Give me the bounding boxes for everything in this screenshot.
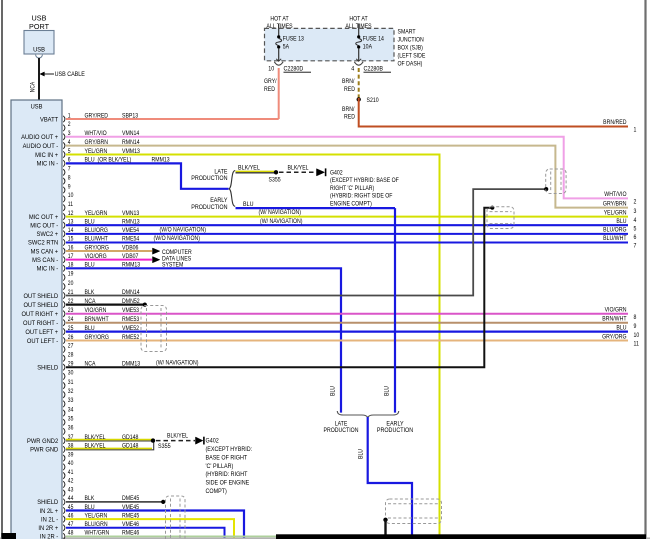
- svg-text:BLK: BLK: [85, 289, 95, 296]
- right window border: [644, 0, 646, 539]
- pin 32: [63, 392, 65, 398]
- wire BLU from brace down to bottom connector: [368, 417, 412, 537]
- svg-text:OUT SHIELD: OUT SHIELD: [24, 302, 59, 309]
- svg-text:WHT/VIO: WHT/VIO: [85, 131, 108, 138]
- junction dot pin 44 shield: [161, 500, 165, 504]
- svg-text:3: 3: [634, 208, 638, 215]
- wire pin 38 BLK/YEL GD148 joins S355: [66, 441, 154, 450]
- wire GRY/RED from fuse 13: [278, 68, 280, 119]
- svg-text:OUT RIGHT +: OUT RIGHT +: [22, 311, 59, 318]
- shield stub wire to module below: [384, 520, 386, 536]
- USB port connector notch: [36, 55, 43, 58]
- svg-text:34: 34: [68, 407, 74, 414]
- svg-text:BASE OF RIGHT: BASE OF RIGHT: [206, 455, 248, 462]
- svg-text:GRY/BRN: GRY/BRN: [85, 140, 109, 147]
- svg-text:RED: RED: [264, 86, 275, 93]
- svg-text:BLU/WHT: BLU/WHT: [85, 236, 109, 243]
- svg-text:S355: S355: [158, 444, 171, 451]
- svg-text:BLU: BLU: [85, 504, 95, 511]
- pin 46: [63, 516, 65, 523]
- pin 6: [63, 160, 65, 166]
- label USB CABLE with arrow: [40, 72, 44, 76]
- svg-text:RMM13: RMM13: [152, 157, 171, 164]
- pin 8: [63, 178, 65, 184]
- wire pin 6 BLU (OR BLK/YEL) RMM13 to brace: [66, 163, 229, 188]
- svg-text:VIO/GRN: VIO/GRN: [85, 308, 107, 315]
- pin 43: [63, 490, 65, 496]
- left window border: [1, 0, 3, 539]
- svg-text:33: 33: [68, 398, 74, 405]
- svg-text:PRODUCTION: PRODUCTION: [324, 427, 359, 434]
- svg-text:9: 9: [634, 323, 637, 330]
- svg-text:BLU: BLU: [616, 325, 626, 332]
- svg-text:OUT SHIELD: OUT SHIELD: [24, 293, 59, 300]
- brace late/early production: [229, 171, 236, 207]
- svg-text:GD148: GD148: [122, 443, 139, 450]
- pin 13: [63, 222, 65, 228]
- svg-text:BLU: BLU: [243, 202, 253, 209]
- svg-text:VME52: VME52: [122, 325, 139, 332]
- pin 47: [63, 525, 65, 531]
- wire pin 17 VIO/ORG VDB07 to computer data lines: [66, 259, 152, 261]
- pin 15: [63, 239, 65, 245]
- svg-text:S210: S210: [367, 98, 380, 105]
- svg-text:PRODUCTION: PRODUCTION: [191, 204, 227, 211]
- wire pin 44 BLK DME45 shield: [66, 501, 163, 503]
- svg-text:2: 2: [68, 122, 71, 129]
- svg-text:MIC IN -: MIC IN -: [37, 160, 59, 167]
- wire pin 18 BLU RMM13 down to brace: [66, 268, 341, 412]
- svg-text:OUT RIGHT -: OUT RIGHT -: [23, 320, 58, 327]
- svg-text:30: 30: [68, 370, 74, 377]
- connector C2280B pin 4: [356, 59, 361, 61]
- svg-text:43: 43: [68, 487, 74, 494]
- pin 37: [63, 437, 65, 443]
- fuse F13 5A: [278, 24, 280, 37]
- svg-text:7: 7: [634, 243, 637, 250]
- svg-text:10: 10: [634, 332, 640, 339]
- pin 30: [63, 373, 65, 379]
- svg-text:FUSE 13: FUSE 13: [283, 36, 305, 43]
- wire pin 15 BLU/WHT RME54 to edge wire 7: [66, 241, 628, 243]
- svg-text:GRY/ORG: GRY/ORG: [85, 245, 110, 252]
- svg-text:4: 4: [634, 217, 638, 224]
- module USB box: [11, 100, 62, 539]
- inline connector over pins 45-48: [166, 496, 186, 539]
- svg-text:VIO/ORG: VIO/ORG: [85, 254, 108, 261]
- svg-text:RIGHT 'C' PILLAR): RIGHT 'C' PILLAR): [330, 185, 374, 192]
- svg-text:G402: G402: [330, 170, 343, 177]
- junction dot at connector, pin 21 shield: [544, 187, 548, 191]
- inline connector bottom right: [386, 499, 442, 524]
- pin 24: [63, 320, 65, 326]
- wire BLK/YEL dashed to G402 lower: [156, 440, 195, 442]
- svg-text:FUSE 14: FUSE 14: [363, 36, 385, 43]
- svg-text:9: 9: [68, 184, 71, 191]
- splice S355 lower: [151, 438, 155, 442]
- svg-text:(W/ NAVIGATION): (W/ NAVIGATION): [260, 218, 303, 225]
- svg-text:BLK/YEL: BLK/YEL: [167, 433, 189, 440]
- svg-text:32: 32: [68, 389, 74, 396]
- pin 5: [63, 151, 65, 157]
- pin 41: [63, 472, 65, 478]
- svg-text:GRY/RED: GRY/RED: [85, 113, 109, 120]
- svg-text:SWC2 +: SWC2 +: [36, 231, 58, 238]
- bottom module box edge clipped: [276, 534, 646, 539]
- svg-text:20: 20: [68, 280, 74, 287]
- pin 7: [63, 169, 65, 175]
- svg-text:OUT LEFT -: OUT LEFT -: [27, 337, 58, 344]
- pin 3: [63, 134, 65, 140]
- svg-text:MIC OUT -: MIC OUT -: [30, 222, 58, 229]
- svg-text:GRY/ORG: GRY/ORG: [85, 334, 110, 341]
- svg-text:VME45: VME45: [122, 504, 140, 511]
- svg-text:NCA: NCA: [85, 361, 96, 368]
- wire pin 12 YEL/GRN VMN13 to edge wire 4: [66, 216, 628, 218]
- svg-text:MIC OUT +: MIC OUT +: [29, 214, 59, 221]
- svg-text:10: 10: [268, 66, 275, 73]
- bottom-left corner block: [2, 533, 17, 539]
- svg-text:RME54: RME54: [122, 236, 140, 243]
- svg-text:RME45: RME45: [122, 513, 140, 520]
- pin 35: [63, 419, 65, 425]
- svg-text:USB: USB: [33, 46, 45, 54]
- svg-text:IN 2L +: IN 2L +: [40, 508, 59, 515]
- svg-text:36: 36: [68, 425, 74, 432]
- svg-text:RED: RED: [344, 86, 355, 93]
- svg-text:VIO/GRN: VIO/GRN: [605, 307, 627, 314]
- svg-text:GRY/ORG: GRY/ORG: [602, 334, 627, 341]
- svg-text:USB CABLE: USB CABLE: [55, 72, 85, 79]
- pin 1: [63, 116, 65, 122]
- svg-text:EARLY: EARLY: [210, 198, 227, 205]
- wire USB cable NCA: [38, 58, 40, 100]
- svg-text:27: 27: [68, 343, 74, 350]
- ground G402 arrow lower: [196, 437, 203, 444]
- wire pin 47 BLU/GRN VME46 down: [66, 528, 225, 538]
- svg-text:MS CAN -: MS CAN -: [32, 257, 58, 264]
- svg-text:VMM13: VMM13: [122, 148, 141, 155]
- pin 11: [63, 205, 65, 211]
- wire pin 16 GRY/ORG VDB06 to computer data lines: [66, 250, 152, 252]
- svg-text:OF DASH): OF DASH): [398, 61, 423, 68]
- svg-text:VDB07: VDB07: [122, 254, 138, 261]
- svg-text:BLU: BLU: [85, 219, 95, 226]
- svg-text:SBP13: SBP13: [122, 113, 139, 120]
- svg-text:10A: 10A: [363, 44, 372, 51]
- wire pin 48 WHT/GRN RME46: [66, 535, 277, 537]
- svg-text:BLU/ORG: BLU/ORG: [85, 228, 109, 235]
- wire BLU early production branch: [236, 207, 396, 209]
- pin 40: [63, 464, 65, 470]
- svg-text:S355: S355: [269, 177, 282, 184]
- inline connector over pins 23-26: [141, 306, 167, 352]
- svg-text:DMM13: DMM13: [122, 361, 141, 368]
- svg-text:RMN14: RMN14: [122, 140, 140, 147]
- svg-text:SMART: SMART: [398, 29, 416, 36]
- wire pin 4 GRY/BRN RMN14 to edge wire 3: [66, 146, 628, 208]
- svg-text:IN 2L -: IN 2L -: [41, 516, 58, 523]
- svg-text:MS CAN +: MS CAN +: [31, 248, 59, 255]
- svg-text:4: 4: [351, 66, 355, 73]
- pin 39: [63, 455, 65, 461]
- svg-text:HOT AT: HOT AT: [270, 16, 289, 23]
- svg-text:BLK/YEL: BLK/YEL: [238, 165, 260, 172]
- svg-text:31: 31: [68, 379, 74, 386]
- pin 14: [63, 231, 65, 237]
- fuse F14 10A: [358, 24, 360, 37]
- wire pin 22 NCA DMN52 shield: [66, 304, 144, 306]
- wire BRN/RED dashed from fuse 14 to S210: [358, 68, 360, 99]
- splice S210: [357, 97, 361, 101]
- svg-text:(W/O NAVIGATION): (W/O NAVIGATION): [154, 236, 201, 243]
- svg-text:HOT AT: HOT AT: [349, 16, 368, 23]
- svg-text:35: 35: [68, 416, 74, 423]
- wire pin 46 YEL/GRN RME45 down: [66, 519, 234, 537]
- inline connector over audio out wires: [546, 169, 566, 194]
- svg-text:BLU/WHT: BLU/WHT: [603, 236, 627, 243]
- vertical BLU wire early production: [394, 208, 396, 413]
- svg-text:1: 1: [634, 127, 637, 134]
- svg-text:BRN/RED: BRN/RED: [603, 120, 626, 127]
- pin 38: [63, 446, 65, 452]
- svg-text:5: 5: [634, 226, 638, 233]
- svg-text:2: 2: [634, 199, 637, 206]
- svg-text:BLU: BLU: [85, 262, 95, 269]
- wire pin 1 GRY/RED SBP13: [66, 118, 279, 120]
- pin 10: [63, 196, 65, 202]
- pin 12: [63, 213, 65, 219]
- svg-text:BLK: BLK: [85, 496, 95, 503]
- svg-text:RED: RED: [344, 114, 355, 121]
- wire pin 25 BLU VME52 to edge wire 10: [66, 331, 628, 333]
- svg-text:PWR GND2: PWR GND2: [27, 438, 59, 445]
- svg-text:WHT/GRN: WHT/GRN: [85, 530, 110, 537]
- pin 26: [63, 337, 65, 343]
- svg-text:BLK/YEL: BLK/YEL: [85, 443, 107, 450]
- svg-text:(W/ NAVIGATION): (W/ NAVIGATION): [156, 360, 199, 367]
- pin 2: [63, 125, 65, 131]
- wire pin 37 BLK/YEL GD148 to S355: [66, 440, 153, 442]
- svg-text:VME46: VME46: [122, 522, 140, 529]
- svg-text:RME52: RME52: [122, 334, 139, 341]
- splice S355 upper: [274, 170, 278, 174]
- pin 17: [63, 257, 65, 263]
- svg-text:11: 11: [634, 341, 639, 348]
- svg-text:AUDIO OUT +: AUDIO OUT +: [21, 134, 58, 141]
- wire pin 3 WHT/VIO VMN14 to edge wire 2: [66, 137, 628, 199]
- svg-text:RME53: RME53: [122, 317, 140, 324]
- wire pin 24 BRN/WHT RME53 to edge wire 9: [66, 322, 628, 324]
- svg-text:SHIELD: SHIELD: [37, 364, 58, 371]
- svg-text:BOX (SJB): BOX (SJB): [398, 45, 423, 52]
- svg-text:DME45: DME45: [122, 496, 140, 503]
- pin 31: [63, 382, 65, 388]
- wire pin 5 YEL/GRN VMM13 down to bottom: [66, 155, 440, 538]
- svg-text:GRY/BRN: GRY/BRN: [603, 201, 627, 208]
- svg-text:(HYBRID: RIGHT: (HYBRID: RIGHT: [206, 472, 248, 479]
- svg-text:DMN14: DMN14: [122, 289, 140, 296]
- svg-text:(HYBRID: RIGHT SIDE OF: (HYBRID: RIGHT SIDE OF: [330, 193, 393, 200]
- svg-text:OUT LEFT +: OUT LEFT +: [25, 329, 58, 336]
- svg-text:GD148: GD148: [122, 434, 139, 441]
- ground G402 arrow upper: [317, 169, 325, 176]
- brace joining late/early production wires: [337, 411, 398, 417]
- pin 48: [63, 533, 65, 539]
- svg-text:(EXCEPT HYBRID: BASE OF: (EXCEPT HYBRID: BASE OF: [330, 178, 399, 185]
- svg-text:DMN52: DMN52: [122, 298, 140, 305]
- svg-text:VBATT: VBATT: [40, 116, 58, 123]
- junction dot pin 29 shield: [490, 206, 494, 210]
- pin 45: [63, 507, 65, 513]
- svg-text:7: 7: [68, 166, 71, 173]
- pin 44: [63, 499, 65, 505]
- pin 22: [63, 301, 65, 307]
- svg-text:BLU: BLU: [616, 219, 626, 226]
- junction dot pin 22 shield: [143, 303, 147, 307]
- component USB PORT box: [24, 31, 54, 55]
- inline connector over pins 12-13 (w/ navigation): [487, 207, 514, 229]
- off-page arrow MS CAN +: [153, 248, 160, 254]
- svg-text:41: 41: [68, 470, 74, 477]
- pin 4: [63, 142, 65, 148]
- svg-text:ENGINE COMPT): ENGINE COMPT): [330, 201, 372, 208]
- svg-text:5A: 5A: [283, 44, 289, 51]
- wire BRN/RED to right edge: [359, 98, 628, 127]
- svg-text:BLU (OR BLK/YEL): BLU (OR BLK/YEL): [85, 157, 132, 164]
- smart junction box SJB: [265, 28, 395, 60]
- pin 27: [63, 346, 65, 352]
- junction dot bottom connector shield: [383, 518, 387, 522]
- svg-text:PWR GND: PWR GND: [30, 446, 58, 453]
- pin 23: [63, 311, 65, 317]
- svg-text:40: 40: [68, 461, 74, 468]
- svg-text:42: 42: [68, 478, 74, 485]
- svg-text:VDB06: VDB06: [122, 245, 139, 252]
- pin 34: [63, 410, 65, 416]
- svg-text:19: 19: [68, 271, 74, 278]
- svg-text:NCA: NCA: [30, 82, 37, 93]
- svg-text:PRODUCTION: PRODUCTION: [377, 427, 413, 434]
- pin 33: [63, 401, 65, 407]
- svg-text:(EXCEPT HYBRID:: (EXCEPT HYBRID:: [206, 447, 253, 454]
- svg-text:BLU: BLU: [358, 449, 365, 459]
- wire BLK/YEL dashed to G402: [279, 171, 316, 173]
- pin 16: [63, 248, 65, 254]
- svg-text:MIC IN -: MIC IN -: [37, 265, 59, 272]
- pin 36: [63, 428, 65, 434]
- svg-text:BLU/ORG: BLU/ORG: [603, 227, 627, 234]
- svg-text:8: 8: [68, 175, 71, 182]
- svg-text:GRY/: GRY/: [264, 79, 277, 86]
- svg-text:YEL/GRN: YEL/GRN: [85, 148, 108, 155]
- svg-text:BRN/: BRN/: [342, 106, 355, 113]
- wire pin 23 VIO/GRN VME53 to edge wire 8: [66, 313, 628, 315]
- svg-text:COMPT): COMPT): [206, 488, 227, 495]
- wire BLK/YEL late production branch: [236, 172, 277, 174]
- pin 20: [63, 283, 65, 289]
- wire pin 14 BLU/ORG VME54 to edge wire 6: [66, 233, 628, 235]
- pin 18: [63, 265, 65, 271]
- svg-text:MIC IN +: MIC IN +: [35, 152, 58, 159]
- wire pin 45 BLU VME45 down: [66, 511, 244, 538]
- wire pin 29 NCA DMM13 shield to inline connector: [66, 208, 492, 368]
- svg-text:'C' PILLAR): 'C' PILLAR): [206, 463, 234, 470]
- pin 25: [63, 328, 65, 334]
- svg-text:WHT/VIO: WHT/VIO: [604, 192, 627, 199]
- svg-text:39: 39: [68, 452, 74, 459]
- svg-text:VMN13: VMN13: [122, 210, 140, 217]
- svg-text:JUNCTION: JUNCTION: [398, 37, 424, 44]
- wire pin 26 GRY/ORG RME52 to edge wire 11: [66, 340, 628, 342]
- svg-text:AUDIO OUT -: AUDIO OUT -: [23, 143, 59, 150]
- svg-text:YEL/GRN: YEL/GRN: [604, 210, 627, 217]
- pin 19: [63, 274, 65, 280]
- svg-text:PORT: PORT: [29, 22, 50, 31]
- svg-text:YEL/GRN: YEL/GRN: [85, 513, 108, 520]
- svg-text:6: 6: [634, 235, 638, 242]
- svg-text:PRODUCTION: PRODUCTION: [191, 175, 227, 182]
- svg-text:SIDE OF ENGINE: SIDE OF ENGINE: [206, 480, 250, 487]
- svg-text:11: 11: [68, 202, 73, 209]
- svg-text:BRN/WHT: BRN/WHT: [85, 317, 110, 324]
- svg-text:RMM13: RMM13: [122, 262, 141, 269]
- svg-text:BLU: BLU: [330, 386, 337, 396]
- svg-text:(W/O NAVIGATION): (W/O NAVIGATION): [160, 227, 207, 234]
- svg-text:8: 8: [634, 315, 638, 322]
- connector C2280D pin 10: [276, 59, 281, 61]
- svg-text:VME54: VME54: [122, 228, 140, 235]
- pin 21: [63, 292, 65, 298]
- pin 29: [63, 364, 65, 370]
- svg-text:RME46: RME46: [122, 530, 140, 537]
- svg-text:BLK/YEL: BLK/YEL: [288, 165, 310, 172]
- svg-text:BLU/GRN: BLU/GRN: [85, 522, 108, 529]
- svg-text:VMN14: VMN14: [122, 131, 140, 138]
- svg-text:BRN/: BRN/: [342, 79, 355, 86]
- pin 28: [63, 355, 65, 361]
- svg-text:28: 28: [68, 352, 74, 359]
- svg-text:(W/ NAVIGATION): (W/ NAVIGATION): [259, 210, 302, 217]
- svg-text:NCA: NCA: [85, 298, 96, 305]
- svg-text:SHIELD: SHIELD: [37, 499, 58, 506]
- off-page arrow MS CAN -: [153, 257, 160, 263]
- svg-text:BLU: BLU: [85, 325, 95, 332]
- svg-text:YEL/GRN: YEL/GRN: [85, 210, 108, 217]
- wire pin 13 BLU RMN13 to edge wire 5: [66, 224, 628, 226]
- svg-text:G402: G402: [206, 438, 220, 445]
- wire pin 21 BLK DMN14 shield to inline connector: [66, 189, 546, 295]
- pin 42: [63, 481, 65, 487]
- svg-text:BRN/WHT: BRN/WHT: [602, 316, 627, 323]
- svg-text:(LEFT SIDE: (LEFT SIDE: [398, 53, 426, 60]
- svg-text:IN 2R -: IN 2R -: [40, 533, 58, 539]
- svg-text:BLK/YEL: BLK/YEL: [85, 434, 107, 441]
- svg-text:SWC2 RTN: SWC2 RTN: [28, 239, 58, 246]
- bottom window border: [0, 537, 650, 539]
- svg-text:IN 2R +: IN 2R +: [38, 525, 58, 532]
- svg-text:VME53: VME53: [122, 308, 140, 315]
- svg-text:USB: USB: [31, 103, 43, 111]
- svg-text:BLU: BLU: [384, 386, 391, 396]
- svg-text:10: 10: [68, 193, 74, 200]
- pin 9: [63, 187, 65, 193]
- svg-text:RMN13: RMN13: [122, 219, 140, 226]
